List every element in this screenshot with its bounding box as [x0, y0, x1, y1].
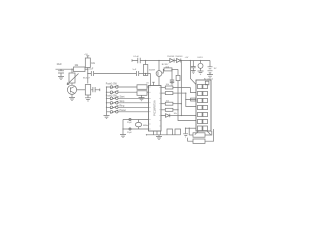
resistor R5 leads [145, 61, 147, 76]
node A junction 2 [87, 73, 88, 74]
wire D3 to busA [170, 115, 182, 117]
connector J1 [196, 80, 211, 131]
ground [104, 116, 110, 119]
capacitor C7 [129, 118, 131, 120]
diode D2 [177, 59, 181, 63]
wire R3 bottom [87, 95, 89, 98]
junction rail busA [181, 60, 182, 61]
connector pads row1 [198, 84, 208, 88]
ground [198, 71, 204, 74]
resistor R13 [176, 75, 180, 80]
svg-text:22pF: 22pF [127, 132, 132, 134]
wire SW1 to IC [147, 86, 149, 88]
trimmer RV1 arrow [67, 74, 79, 85]
svg-text:4MHz: 4MHz [143, 125, 148, 127]
wire bus bottom b [188, 128, 190, 135]
ground [120, 135, 126, 138]
junction bus row1 [106, 86, 107, 87]
svg-text:BC547: BC547 [83, 78, 90, 80]
wire R6 right [172, 68, 178, 70]
node A junction [87, 69, 88, 70]
wire Q2 bottom [158, 76, 160, 85]
resistor R1 [74, 67, 86, 72]
resistor R5 [143, 65, 147, 76]
resistor R11 [165, 102, 173, 105]
ground [191, 71, 196, 74]
switch SW1 [107, 85, 138, 88]
svg-text:0.1uF: 0.1uF [133, 56, 139, 58]
wire B1 left [189, 134, 193, 136]
connector pads row2 [198, 91, 208, 95]
svg-text:100kR: 100kR [149, 70, 156, 72]
capacitor C8 [129, 128, 131, 130]
resistor R2 top stub [86, 56, 89, 58]
svg-text:1N4148: 1N4148 [175, 56, 183, 58]
wire audio long [94, 73, 137, 75]
ground [58, 76, 64, 79]
wire U1 bottom pins [154, 131, 161, 135]
transistor Q1 [67, 85, 76, 94]
svg-text:Stop: Stop [120, 100, 125, 103]
wire button bus [106, 87, 108, 116]
diode D1 [170, 59, 174, 63]
svg-text:+5V: +5V [84, 54, 88, 56]
ground [69, 97, 75, 100]
junction D3 busA [181, 115, 182, 116]
battery BT1 [208, 61, 213, 75]
wire R1 to node A [85, 68, 88, 70]
svg-text:Power: Power [120, 109, 127, 112]
wire bus bottom a [185, 128, 187, 133]
junction busB mid [185, 99, 186, 100]
connector pads row6 [198, 119, 208, 123]
wire U1 to R10 [161, 92, 165, 94]
junction rail busC [190, 60, 191, 61]
junction rail Q2 [158, 60, 159, 61]
box B2 [193, 139, 205, 143]
junction RV1 [71, 69, 72, 70]
capacitor C3 [136, 71, 138, 76]
wire crystal bottom OSC2 [123, 128, 149, 130]
resistor R14 [191, 98, 196, 101]
diode D3 [161, 114, 170, 118]
resistor R7 [137, 85, 147, 90]
wire input left [56, 68, 74, 70]
wire R9 to busC [173, 87, 191, 89]
transistor Q1 internals [70, 86, 74, 93]
wire crystal top OSC1 [123, 119, 149, 121]
junction row7 a [185, 128, 186, 129]
connector pads row7 [198, 126, 208, 131]
svg-text:1uF: 1uF [132, 69, 136, 71]
resistor R10 [165, 92, 173, 95]
resistor R6 [164, 68, 172, 71]
wire Q2 base [162, 69, 164, 73]
svg-text:Start: Start [120, 96, 125, 99]
connector leg right [207, 131, 211, 135]
svg-text:10uF: 10uF [57, 64, 63, 66]
ground [85, 98, 91, 101]
wire Q1 top [71, 83, 73, 85]
svg-text:U1: U1 [146, 83, 150, 85]
resistor R12 [165, 108, 173, 111]
jumper JP2 [175, 129, 181, 135]
connector pads row5 [198, 112, 208, 116]
wire rail between diodes [174, 60, 176, 62]
svg-text:LED1: LED1 [198, 57, 204, 59]
wire rail mid [140, 60, 170, 62]
resistor R8 [137, 91, 147, 96]
wire U1 to R9 [161, 87, 165, 89]
capacitor C4 [91, 87, 95, 92]
ground [156, 135, 162, 140]
capacitor C2 [88, 71, 94, 76]
ground [207, 75, 213, 78]
svg-text:9V: 9V [214, 68, 217, 70]
U1 pin numbers right [159, 88, 160, 127]
wire bus C upper diagonal [190, 61, 196, 85]
wire SW2 to IC [147, 91, 149, 93]
ground [139, 98, 145, 101]
wire rail to Q2 [158, 61, 160, 71]
wire audio to IC [150, 74, 152, 86]
box B1 [193, 133, 205, 137]
junction bottom left [146, 134, 147, 135]
ground [183, 134, 188, 137]
wire bus A [181, 61, 196, 116]
connector pads row3 [198, 98, 208, 102]
capacitor C9 [191, 61, 196, 71]
crystal X1 leads [138, 120, 140, 130]
junction rail LED [200, 60, 201, 61]
resistor R2 [85, 58, 90, 68]
jumper JP1 [167, 129, 173, 135]
U1 pin numbers left [149, 87, 150, 129]
transistor Q2 internals [157, 72, 159, 75]
wire bus C [190, 88, 196, 93]
switch SW5 [107, 106, 149, 109]
svg-text:Push1-SW: Push1-SW [106, 84, 118, 86]
junction row7 b [189, 128, 190, 129]
wire Q1 out [77, 89, 86, 91]
op-amp U1 [149, 86, 162, 132]
wire bottom bus [147, 134, 181, 136]
svg-text:+5V: +5V [185, 57, 189, 59]
switch SW2 [107, 90, 138, 93]
node B junction [145, 73, 146, 74]
resistor R13 leads [177, 69, 179, 83]
wire B2 loop [205, 129, 214, 141]
connector leg left [195, 131, 199, 135]
trimmer RV1 [69, 73, 75, 83]
LED D4 leads [200, 61, 202, 72]
connector pads row4 [198, 105, 208, 109]
resistor R9 [165, 86, 173, 89]
wire R10 to busB [173, 92, 186, 94]
junction R6 out [171, 69, 172, 70]
wire bus B [186, 93, 196, 106]
wire bus D [178, 83, 196, 121]
U1 top stub pin [152, 82, 155, 85]
wire Q1 bottom [71, 94, 73, 97]
wire R12 to busD [173, 109, 178, 111]
switch SW6 [107, 110, 149, 113]
ground [170, 83, 174, 86]
junction bus row3 [106, 98, 107, 99]
svg-text:10k: 10k [174, 113, 178, 115]
junction crystal left [122, 128, 123, 129]
junction bus row2 [106, 92, 107, 93]
wire rail right [181, 60, 210, 62]
svg-text:Ring: Ring [120, 106, 125, 108]
capacitor C1 [58, 69, 64, 76]
svg-text:1uF: 1uF [89, 69, 94, 71]
wire B1 loop [205, 131, 212, 135]
switch SW3 [107, 97, 149, 100]
transistor Q2 [156, 71, 162, 77]
resistor R3 [85, 85, 90, 96]
junction busB r2 [185, 92, 186, 93]
wire C4 stub [95, 89, 100, 92]
wire C3 to node B [139, 73, 151, 75]
junction bus row5 [106, 107, 107, 108]
capacitor C6 [170, 69, 174, 82]
wire R11 to busA [173, 103, 181, 105]
wire rail left [132, 59, 138, 61]
svg-text:PIC16F87XA: PIC16F87XA [153, 100, 157, 116]
connector top square [205, 81, 209, 85]
wire RV1 top [71, 69, 73, 73]
wire node A vertical [87, 68, 89, 84]
svg-text:1N4148: 1N4148 [167, 56, 175, 58]
LED D4 [198, 63, 203, 68]
svg-text:10k: 10k [91, 63, 96, 65]
capacitor C5 [138, 58, 140, 63]
switch SW4 [107, 101, 149, 104]
wire R7R8 ground stub [141, 95, 143, 97]
wire crystal left [122, 120, 124, 135]
junction rail R5 [145, 60, 146, 61]
junction bus row4 [106, 102, 107, 103]
junction busD r4 [177, 109, 178, 110]
crystal X1 [135, 122, 141, 126]
svg-text:22pF: 22pF [127, 122, 132, 124]
wire conn row7 [186, 127, 196, 129]
junction R11 busA [181, 103, 182, 104]
wire U1 to R12 [161, 109, 165, 111]
wire U1 to R11 [161, 103, 165, 105]
wire B2 left [188, 138, 193, 142]
